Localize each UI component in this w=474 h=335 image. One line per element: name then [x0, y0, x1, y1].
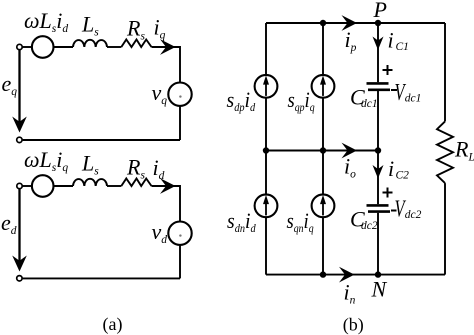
bottom wire q: [23, 139, 180, 141]
inductor Ls (d): [73, 179, 107, 186]
wire capacitor branch upper: [377, 23, 379, 82]
svg-text:Ls: Ls: [81, 151, 99, 178]
svg-text:i: i: [388, 28, 394, 53]
resistor RL: [437, 121, 453, 183]
minus sign C2: [391, 210, 397, 212]
svg-text:P: P: [373, 0, 387, 22]
wire ed shaft: [18, 189, 20, 263]
resistor Rs (d): [121, 179, 151, 187]
svg-text:in: in: [344, 280, 356, 307]
source sdp id: [255, 75, 278, 98]
arrow iC2: [373, 165, 384, 179]
node dot mid-378: [375, 147, 381, 153]
svg-text:(b): (b): [343, 315, 364, 335]
terminal top-left d: [17, 183, 22, 188]
source wLsid U1: [32, 36, 54, 58]
svg-text:dc1: dc1: [405, 93, 422, 105]
svg-text:sqpiq: sqpiq: [288, 89, 316, 115]
wire: [54, 185, 74, 187]
svg-text:iq: iq: [154, 15, 166, 42]
wire: [179, 245, 181, 279]
svg-text:sdpid: sdpid: [227, 87, 256, 114]
wire rail P: [266, 22, 445, 24]
wire mid rail: [266, 150, 378, 152]
node dot N-323: [320, 271, 326, 277]
svg-text:io: io: [344, 154, 356, 181]
wire with corner: [152, 186, 181, 222]
node dot mid-266: [263, 147, 269, 153]
svg-text:id: id: [153, 155, 165, 182]
svg-text:ed: ed: [1, 210, 17, 237]
wire load branch: [444, 23, 446, 121]
source vd: [168, 222, 191, 245]
arrow ed: [12, 256, 27, 272]
minus sign C1: [391, 89, 397, 91]
terminal top-left q: [17, 44, 22, 49]
svg-text:sqniq: sqniq: [287, 210, 315, 236]
plus sign C1: [383, 69, 393, 71]
wire eq shaft: [18, 50, 20, 124]
bottom wire d: [23, 277, 180, 279]
node dot P-323: [320, 20, 326, 26]
source wLsiq U2: [32, 175, 54, 197]
node dot mid-323: [320, 147, 326, 153]
svg-text:vq: vq: [152, 80, 168, 107]
svg-text:sdnid: sdnid: [227, 208, 256, 235]
wire with corner: [152, 47, 181, 83]
svg-text:ωLsiq: ωLsiq: [24, 147, 68, 174]
arrow in: [339, 267, 355, 283]
wire second branch: [322, 23, 324, 275]
svg-text:i: i: [388, 156, 394, 181]
source sqn iq: [312, 194, 335, 217]
terminal bottom-left q: [17, 137, 22, 142]
svg-text:dc2: dc2: [405, 209, 422, 221]
resistor Rs (q): [121, 40, 151, 48]
terminal bottom-left d: [17, 276, 22, 281]
wire: [107, 46, 121, 48]
inductor Ls (q): [73, 40, 107, 47]
arrow id: [160, 178, 176, 194]
svg-text:Rs: Rs: [126, 155, 145, 182]
svg-text:RL: RL: [454, 137, 474, 164]
wire rail N: [266, 274, 445, 276]
svg-text:Ls: Ls: [81, 12, 99, 39]
arrow ip: [342, 15, 358, 31]
arrow iC1: [373, 37, 384, 51]
svg-text:eq: eq: [2, 71, 18, 98]
svg-text:N: N: [371, 277, 388, 302]
svg-text:C2: C2: [396, 170, 410, 182]
wire: [377, 91, 379, 151]
wire: [22, 185, 32, 187]
node dot N-378: [375, 271, 381, 277]
node dot P-378: [375, 20, 381, 26]
svg-text:Rs: Rs: [126, 16, 145, 43]
svg-text:ωLsid: ωLsid: [24, 8, 68, 35]
svg-text:vd: vd: [152, 219, 168, 246]
plus sign C2: [383, 192, 393, 194]
svg-text:dc1: dc1: [361, 98, 378, 110]
wire: [107, 185, 121, 187]
source sdn id: [255, 194, 278, 217]
arrow io: [342, 143, 358, 159]
svg-text:ip: ip: [345, 27, 357, 54]
source sqp iq: [312, 75, 335, 98]
wire: [54, 46, 74, 48]
wire left branch: [265, 23, 267, 275]
arrow iq: [160, 39, 176, 55]
wire: [444, 183, 446, 275]
svg-text:dc2: dc2: [361, 220, 378, 232]
source vq: [168, 83, 191, 106]
svg-text:(a): (a): [103, 314, 123, 335]
capacitor Cdc2: [367, 204, 389, 207]
capacitor Cdc1: [367, 82, 389, 85]
wire capacitor branch lower: [377, 151, 379, 205]
wire: [22, 46, 32, 48]
arrow eq: [12, 117, 27, 133]
wire: [179, 106, 181, 140]
svg-text:C1: C1: [396, 41, 409, 53]
wire: [377, 213, 379, 275]
